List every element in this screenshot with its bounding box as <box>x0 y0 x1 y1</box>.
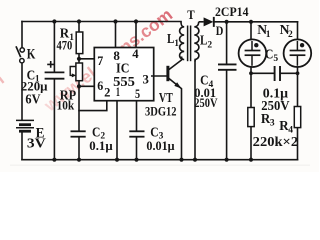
scan artifact line <box>10 165 310 166</box>
svg-text:2: 2 <box>288 30 293 40</box>
capacitor C3 <box>129 131 144 136</box>
junction C3 bottom rail <box>134 158 138 162</box>
neon lamp N1 <box>239 39 267 67</box>
svg-text:250V: 250V <box>194 96 217 110</box>
capacitor C5 <box>275 66 280 81</box>
junction R3 bottom rail <box>249 158 253 162</box>
svg-text:T: T <box>187 7 195 22</box>
wire pin4 <box>135 22 137 51</box>
junction C5 right <box>296 71 300 75</box>
svg-text:K: K <box>27 46 36 62</box>
wire pin5 to C3 <box>136 99 138 132</box>
svg-text:4: 4 <box>132 46 139 61</box>
wire N1 bottom to R3 <box>250 67 252 160</box>
junction emitter bottom rail <box>179 158 183 162</box>
wire N2 top lead <box>297 22 299 40</box>
transformer T primary L1 <box>180 22 185 60</box>
svg-text:1: 1 <box>116 84 120 99</box>
junction C1 top rail <box>52 19 56 23</box>
svg-text:7: 7 <box>97 53 103 68</box>
junction R1 top rail <box>77 19 81 23</box>
wire C4 column <box>226 22 228 160</box>
svg-text:3DG12: 3DG12 <box>145 104 177 119</box>
junction pin1 bottom rail <box>115 158 119 162</box>
svg-text:D: D <box>216 24 224 38</box>
junction R1-RP pin7 node <box>77 57 81 61</box>
svg-text:VT: VT <box>159 90 173 105</box>
junction C1 bottom rail <box>52 158 56 162</box>
diode 2CP14 <box>204 17 214 26</box>
svg-text:0.01μ: 0.01μ <box>146 139 174 153</box>
junction pin8 top rail <box>113 19 117 23</box>
emitter arrow <box>174 82 181 88</box>
svg-text:5: 5 <box>273 54 278 64</box>
svg-text:470: 470 <box>57 38 73 53</box>
resistor R3 <box>248 108 254 127</box>
wire C1 column top <box>53 22 55 73</box>
junction node D / C4 <box>225 20 229 24</box>
wire RP bottom to C2 <box>78 81 80 132</box>
IC 555 timer box <box>94 48 153 101</box>
neon lamp N2 <box>284 39 312 67</box>
RP wiper <box>70 67 76 76</box>
transformer T secondary L2 <box>194 22 203 62</box>
wire diode cathode to N-lamps <box>214 21 298 23</box>
junction pin4 top rail <box>134 19 138 23</box>
svg-text:2: 2 <box>104 85 110 100</box>
wire pin8 <box>115 22 117 51</box>
wire R1 to RP <box>78 54 80 63</box>
wire switch to battery <box>21 63 23 120</box>
junction N1 top rail <box>249 20 253 24</box>
svg-text:6V: 6V <box>25 91 40 106</box>
svg-text:1: 1 <box>174 39 179 49</box>
svg-text:3: 3 <box>270 118 275 128</box>
wire C2 to rail <box>78 137 80 160</box>
capacitor C1 <box>45 72 65 78</box>
wire pin1 <box>116 99 118 160</box>
svg-text:C: C <box>92 124 100 139</box>
wire pin3 base <box>151 75 167 77</box>
svg-text:3: 3 <box>143 72 150 87</box>
wire bottom rail <box>22 159 298 161</box>
svg-text:2CP14: 2CP14 <box>215 4 249 19</box>
pin stubs <box>151 75 154 77</box>
resistor R4 <box>294 107 300 128</box>
wire battery to bottom rail <box>21 131 23 159</box>
wire pin7 <box>79 58 98 60</box>
svg-text:5: 5 <box>135 86 140 101</box>
wire N2 bottom to R4 <box>297 67 299 160</box>
capacitor C2 <box>71 131 86 136</box>
svg-text:C: C <box>150 124 158 139</box>
wire N1 top lead <box>250 22 252 40</box>
wire top rail left <box>22 21 181 23</box>
transistor VT <box>168 57 182 160</box>
svg-text:3V: 3V <box>27 135 46 150</box>
svg-text:8: 8 <box>113 48 120 63</box>
wire pin6 <box>79 85 98 87</box>
svg-text:1: 1 <box>266 30 271 40</box>
junction C5 left <box>249 71 253 75</box>
switch K <box>16 46 24 63</box>
svg-text:2: 2 <box>207 41 212 51</box>
svg-text:220k×2: 220k×2 <box>253 134 299 149</box>
wire L2 bottom column <box>194 61 196 160</box>
svg-text:10k: 10k <box>57 98 75 113</box>
C1 plus sign <box>47 61 54 68</box>
potentiometer RP <box>76 63 83 81</box>
battery E <box>16 120 34 131</box>
junction C4 bottom rail <box>225 158 229 162</box>
resistor R1 <box>76 32 83 54</box>
svg-text:6: 6 <box>97 78 103 93</box>
wire C1 column bottom <box>53 79 55 160</box>
wire C5 horizontal <box>251 72 298 74</box>
svg-text:0.1μ: 0.1μ <box>89 139 112 153</box>
wire R1 top <box>78 22 80 33</box>
junction RP-pin6 node <box>77 84 81 88</box>
wire pin2 <box>79 99 107 111</box>
wire C3 to rail <box>136 137 138 160</box>
svg-text:C: C <box>265 47 273 62</box>
capacitor C4 <box>218 64 237 69</box>
wire left vertical top <box>21 22 23 48</box>
transformer core <box>188 26 191 62</box>
junction C2 bottom rail <box>77 158 81 162</box>
svg-text:L: L <box>200 33 207 48</box>
junction L2 bottom rail <box>193 158 197 162</box>
